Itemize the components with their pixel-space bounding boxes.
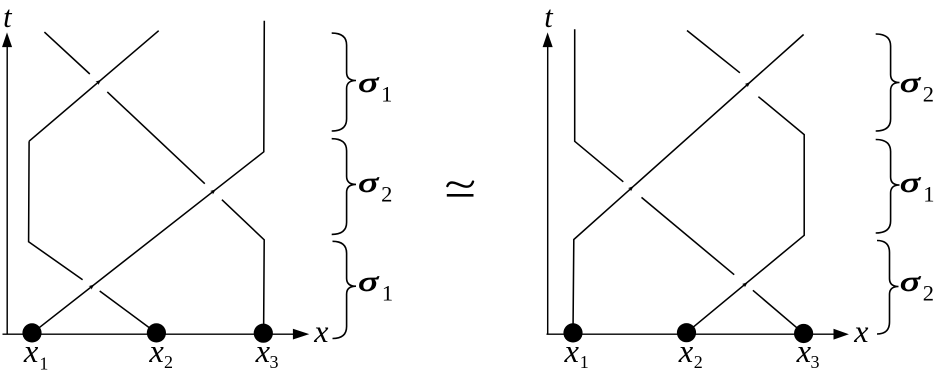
svg-text:x: x — [796, 334, 812, 370]
crossing arrow-tick top right — [745, 80, 752, 87]
svg-text:σ: σ — [900, 68, 921, 98]
strand x2 right: top segment ending at position2 — [687, 31, 740, 73]
x-axis left — [3, 333, 294, 335]
strand x3 right: lower diagonal from dot x3 (under bottom crossing) — [753, 290, 804, 333]
crossing arrow-tick top left — [96, 78, 103, 85]
svg-text:x: x — [148, 334, 164, 370]
strand x2 left: top over-diagonal position1->position2 — [29, 31, 159, 142]
brace sigma2 bottom right — [877, 241, 899, 335]
node x3 right — [794, 324, 813, 343]
crossing arrow-tick middle right — [628, 184, 635, 191]
svg-text:t: t — [3, 0, 13, 34]
svg-text:3: 3 — [270, 352, 279, 372]
svg-text:σ: σ — [900, 267, 921, 297]
crossing arrow-tick bottom left — [89, 283, 96, 290]
brace sigma1 bottom left — [333, 241, 357, 338]
strand x3 right: middle segment between crossing gaps — [642, 197, 735, 274]
svg-text:x: x — [564, 334, 580, 370]
svg-text:1: 1 — [580, 352, 589, 372]
strand x1 left: straight over-diagonal position1->position3 then vertical — [32, 21, 264, 334]
strand x2 left: lower diagonal segment from dot x2 (under bottom crossing) — [100, 291, 157, 333]
strand x3 left: vertical from dot x3 then diagonal toward position1 — [222, 200, 264, 334]
svg-text:2: 2 — [694, 352, 703, 372]
equivalence (braid isotopy) symbol — [447, 182, 473, 187]
svg-text:x: x — [853, 313, 868, 349]
t-axis left — [6, 47, 8, 335]
svg-text:σ: σ — [900, 168, 921, 198]
svg-text:1: 1 — [39, 353, 48, 373]
node x1 left — [22, 323, 41, 342]
svg-text:t: t — [544, 0, 554, 34]
x-axis right — [547, 333, 835, 335]
brace sigma1 middle right — [876, 140, 900, 234]
svg-text:1: 1 — [923, 181, 934, 206]
svg-text:σ: σ — [358, 267, 379, 297]
svg-text:2: 2 — [923, 82, 934, 107]
svg-text:x: x — [313, 313, 328, 349]
strand x3 left: top segment ending at position1 — [44, 32, 89, 74]
node x3 left — [254, 324, 273, 343]
svg-text:2: 2 — [381, 181, 392, 206]
strand x1 right: vertical from dot x1 then over-diagonal to position3 — [573, 35, 804, 334]
node x2 right — [677, 323, 696, 342]
brace sigma2 top right — [876, 34, 900, 131]
svg-text:x: x — [255, 334, 271, 370]
brace sigma1 top left — [332, 33, 356, 131]
svg-text:3: 3 — [811, 352, 820, 372]
node x1 right — [563, 323, 582, 342]
svg-text:2: 2 — [923, 281, 934, 306]
t-axis right — [547, 47, 549, 335]
svg-text:x: x — [23, 334, 39, 370]
svg-text:σ: σ — [358, 68, 379, 98]
brace sigma2 middle left — [332, 139, 356, 235]
strand x2 right: over-diagonal to position3, vertical, under top crossing — [687, 97, 805, 333]
svg-text:1: 1 — [382, 281, 393, 306]
strand x3 right: segment to position1 then vertical to top — [575, 29, 624, 182]
crossing arrow-tick bottom right — [742, 281, 749, 288]
svg-text:2: 2 — [164, 352, 173, 372]
crossing arrow-tick middle left — [210, 188, 217, 195]
svg-text:σ: σ — [358, 168, 379, 198]
strand x2 left: segment after gap, corner, vertical at position1 — [29, 141, 83, 280]
node x2 left — [147, 323, 166, 342]
svg-text:x: x — [678, 334, 694, 370]
strand x3 left: middle segment between crossing gaps — [107, 92, 205, 184]
svg-text:1: 1 — [381, 82, 392, 107]
